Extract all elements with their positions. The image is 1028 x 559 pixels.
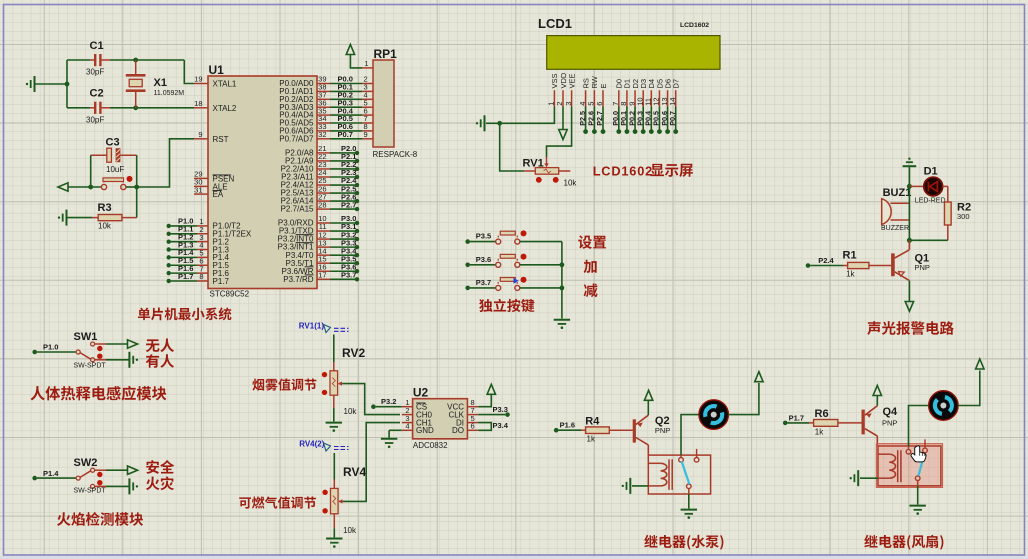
ground RV2: [326, 422, 342, 424]
push button reset: [101, 184, 106, 189]
svg-text:RV1: RV1: [523, 158, 544, 170]
pin 26 stub: [317, 192, 330, 194]
wire net P1.1: [171, 233, 197, 235]
hand cursor: [911, 446, 926, 462]
node P3.6: [355, 269, 359, 273]
node P1.6: [554, 428, 559, 433]
ground above alarm: [903, 165, 917, 167]
svg-text:P1.7: P1.7: [213, 277, 230, 286]
node P2.7: [355, 207, 359, 211]
ground near crystal caps: [34, 76, 36, 92]
RL2 common pin inner: [917, 481, 919, 486]
wire down to XTAL1 pin: [184, 60, 194, 84]
button action dot P3.5: [521, 230, 527, 236]
svg-text:ADC0832: ADC0832: [413, 441, 448, 450]
wire Q4 emitter to power: [876, 396, 878, 406]
node P3.2: [355, 237, 359, 241]
svg-text:U1: U1: [209, 63, 225, 77]
resistor R4: [581, 429, 586, 431]
LCD pin 14 stub: [675, 90, 677, 106]
wire RV2 top: [333, 335, 335, 363]
wire VDD down: [562, 107, 564, 131]
wire P1.6 to R4: [558, 429, 581, 431]
resistor R6: [809, 422, 814, 424]
power symbol down at Q1: [905, 302, 913, 312]
pin 3 stub: [197, 241, 208, 243]
node P1.0: [167, 224, 171, 228]
RV1 wiper arrow: [546, 157, 548, 165]
caption 减: [584, 284, 598, 298]
node P0.4 at LCD: [649, 129, 654, 134]
pin 37 stub: [317, 98, 330, 100]
RL1 contact pin inner: [680, 455, 682, 457]
svg-text:28: 28: [318, 200, 326, 209]
svg-text:1k: 1k: [846, 270, 855, 279]
RP1 pin 6 stub: [362, 114, 373, 116]
wire RV4 top: [333, 453, 335, 480]
caption 安全: [146, 460, 159, 474]
wire net P3.3: [330, 246, 356, 248]
pin 12 stub: [317, 238, 330, 240]
terminal triangle RV4: [324, 443, 331, 451]
caption 火灾: [146, 477, 160, 491]
wire net P3.0: [330, 222, 356, 224]
node P0.2 at LCD: [633, 129, 638, 134]
RP1 pin 2 stub: [362, 83, 373, 85]
pin 15 stub: [317, 262, 330, 264]
wire VSS to ground: [502, 107, 554, 124]
wire P2.4 to R1: [810, 265, 843, 267]
SW1 action dot down: [97, 354, 102, 359]
svg-text:3: 3: [564, 102, 573, 106]
power symbol down at VDD: [559, 130, 567, 140]
LCD pin 6 stub: [602, 90, 604, 106]
node P1.4: [167, 255, 171, 259]
wire LCD net P2.5: [585, 107, 587, 131]
svg-text:10uF: 10uF: [106, 165, 124, 174]
wire button P3.5 to rail: [520, 241, 562, 243]
LCD pin 7 stub: [618, 90, 620, 106]
RV4 adjust dot up: [322, 490, 327, 495]
wire ground net to RV1 left: [500, 123, 524, 171]
wire button P3.7 to rail: [520, 287, 562, 289]
node P1.1: [167, 232, 171, 236]
svg-text:U2: U2: [413, 386, 429, 400]
svg-text:X1: X1: [154, 77, 167, 89]
wire vertical C1 to C2: [66, 60, 68, 108]
wire net P1.3: [171, 249, 197, 251]
ground at R3: [66, 210, 68, 226]
svg-text:6: 6: [471, 422, 475, 431]
wire RL1 common to ground: [688, 494, 690, 509]
push button P3.7: [496, 285, 501, 290]
pin 34 stub: [317, 122, 330, 124]
pin 5 stub: [197, 256, 208, 258]
RP1 pin 7 stub: [362, 122, 373, 124]
node P2.5: [355, 191, 359, 195]
node P2.6 at LCD: [592, 129, 597, 134]
svg-text:C2: C2: [90, 88, 104, 100]
svg-text:P3.4: P3.4: [493, 421, 509, 430]
power symbol left at reset: [58, 183, 68, 191]
svg-text:P0.7/AD7: P0.7/AD7: [279, 134, 314, 143]
ground of buttons: [554, 319, 570, 321]
capacitor C1: [90, 59, 94, 61]
wire net P2.3: [330, 176, 356, 178]
svg-text:P3.3: P3.3: [493, 405, 508, 414]
svg-text:P3.7: P3.7: [341, 270, 356, 279]
node P1.2: [167, 239, 171, 243]
RV2 top lead: [333, 362, 335, 371]
svg-text:SW-SPDT: SW-SPDT: [74, 488, 107, 495]
svg-text:RV1(1): RV1(1): [299, 322, 325, 331]
svg-text:RV4: RV4: [343, 465, 366, 479]
R2 bottom lead: [947, 225, 949, 240]
relay RL2 common contact: [915, 476, 920, 481]
wire SW1 top to power: [106, 343, 128, 345]
svg-text:BUZZER: BUZZER: [881, 225, 909, 232]
wire C3 left down: [90, 155, 92, 187]
wire SW2 bottom to ground: [106, 485, 129, 487]
blue dashes RV2: [334, 328, 349, 331]
wire LCD net P0.6: [667, 107, 669, 131]
wire junction to ground: [486, 122, 500, 124]
caption 设置: [578, 235, 592, 248]
LCD pin 10 stub: [642, 90, 644, 106]
push button P3.6: [496, 262, 501, 267]
U2 pin 7 stub: [467, 414, 478, 416]
RV2 adjust dot down: [322, 390, 327, 395]
node P0.0 at LCD: [616, 129, 621, 134]
svg-text:17: 17: [318, 270, 326, 279]
node P1.5: [167, 263, 171, 267]
caption 火焰检测模块: [57, 512, 71, 526]
pin 7 stub: [197, 272, 208, 274]
svg-text:R3: R3: [98, 202, 112, 214]
pin 35 stub: [317, 114, 330, 116]
svg-text:BUZ1: BUZ1: [883, 187, 912, 199]
wire P3.7 to button: [470, 287, 496, 289]
relay RL1 box (water pump): [648, 455, 710, 494]
wire P1.4 to SW2: [37, 477, 76, 479]
blue dashes RV4: [334, 447, 349, 450]
pin 38 stub: [317, 90, 330, 92]
wire R2 to alarm bottom node: [909, 239, 947, 241]
svg-text:P3.7/RD: P3.7/RD: [283, 275, 313, 284]
wire RV2 wiper to U2 CH0: [343, 384, 401, 415]
svg-text:Q4: Q4: [883, 406, 899, 418]
node P3.7: [465, 286, 470, 291]
svg-text:P1.0: P1.0: [43, 343, 58, 352]
node P3.0: [355, 221, 359, 225]
ground RL1 common: [681, 509, 697, 511]
pin 36 stub: [317, 106, 330, 108]
RV1 right lead: [559, 170, 571, 172]
wire ground to alarm node: [908, 166, 910, 186]
LCD pin 13 stub: [667, 90, 669, 106]
wire DI DO join P3.4: [478, 423, 491, 431]
svg-text:4: 4: [578, 102, 587, 106]
node P0.5 at LCD: [657, 129, 662, 134]
node P3.1: [355, 229, 359, 233]
RV4 adjust dot down: [322, 508, 327, 513]
node P3.6: [465, 263, 470, 268]
svg-text:VEE: VEE: [567, 73, 576, 88]
pin 6 stub: [197, 264, 208, 266]
wire net P1.6: [171, 272, 197, 274]
wire U2 GND left: [389, 429, 402, 431]
svg-text:18: 18: [194, 99, 202, 108]
svg-text:P3.5: P3.5: [476, 232, 491, 241]
wire C3 right down: [136, 155, 138, 187]
svg-text:R1: R1: [843, 250, 857, 262]
svg-text:LCD1602: LCD1602: [593, 164, 653, 179]
pin 24 stub: [317, 176, 330, 178]
svg-text:P2.5: P2.5: [578, 111, 587, 126]
RV4 wiper: [339, 500, 343, 502]
wire C1 to XTAL1 net: [110, 59, 184, 61]
pin 39 stub: [317, 83, 330, 85]
wire net P0.6: [330, 130, 362, 132]
node P3.3: [505, 412, 510, 417]
svg-text:EA: EA: [213, 190, 224, 199]
wire junction down to R3: [136, 187, 138, 218]
motor M1 water pump: [699, 400, 729, 430]
wire P3.5 to button: [470, 241, 496, 243]
svg-text:9: 9: [364, 130, 368, 139]
wire net P2.7: [330, 208, 356, 210]
wire U2 GND down: [388, 430, 390, 438]
svg-text:30pF: 30pF: [86, 68, 104, 77]
wire VCC to power: [478, 394, 491, 407]
svg-text:DO: DO: [452, 426, 464, 435]
wire net P0.3: [330, 106, 362, 108]
LED D1: [924, 177, 943, 196]
relay RL2 coil: [878, 453, 889, 455]
caption 继电器(水泵): [644, 535, 657, 548]
wire RV4 to ground: [333, 528, 335, 537]
caption 烟雾值调节: [252, 379, 264, 391]
svg-text:GND: GND: [416, 426, 434, 435]
svg-text:STC89C52: STC89C52: [210, 290, 250, 299]
resistor R2: [944, 202, 951, 225]
svg-text:RST: RST: [213, 135, 229, 144]
svg-text:300: 300: [957, 212, 970, 221]
svg-text:1k: 1k: [587, 435, 596, 444]
node reset junction: [134, 185, 139, 190]
push button P3.5: [496, 239, 501, 244]
RV4 top lead: [333, 480, 335, 489]
pot RV1 left lead: [524, 170, 535, 172]
U2 pin 6 stub: [467, 429, 478, 431]
wire net P2.1: [330, 160, 356, 162]
node P1.7: [783, 421, 788, 426]
pin 9 stub: [194, 138, 208, 140]
D1 right lead: [943, 185, 948, 187]
node P3.5: [465, 239, 470, 244]
pin 25 stub: [317, 184, 330, 186]
wire C2 to XTAL2 pin: [110, 107, 194, 109]
U2 pin 8 stub: [467, 406, 478, 408]
pin 14 stub: [317, 254, 330, 256]
RV1 adjust dot left: [536, 177, 542, 183]
pin 30 stub: [194, 185, 208, 187]
wire RL2 common to ground: [917, 486, 919, 505]
caption 无人: [146, 339, 160, 352]
node P2.2: [355, 167, 359, 171]
wire LCD net P0.2: [634, 107, 636, 131]
node C3 left junction: [88, 185, 93, 190]
wire net P2.2: [330, 168, 356, 170]
wire net P3.6: [330, 270, 356, 272]
relay RL2 box (fan): [878, 446, 941, 486]
SW1 top throw lead: [95, 343, 106, 345]
pin 8 stub: [197, 280, 208, 282]
wire net P0.0: [330, 83, 362, 85]
node P3.7: [355, 277, 359, 281]
caption 声光报警电路: [867, 321, 880, 335]
power symbol at Q4: [873, 386, 881, 396]
resistor R3: [92, 217, 98, 219]
node VSS ground junction: [497, 121, 502, 126]
node P0.1 at LCD: [625, 129, 630, 134]
button action dot P3.6: [521, 254, 527, 260]
U2 pin 5 stub: [467, 422, 478, 424]
svg-text:32: 32: [318, 130, 326, 139]
LCD pin 5 stub: [593, 90, 595, 106]
wire net P2.4: [330, 184, 356, 186]
SW1 action dot up: [97, 346, 102, 351]
svg-text:1: 1: [364, 59, 368, 68]
svg-text:R6: R6: [815, 408, 829, 420]
wire to C2 left: [67, 107, 90, 109]
RV2 adjust dot up: [322, 372, 327, 377]
svg-text:LCD1: LCD1: [538, 16, 572, 31]
svg-text:10k: 10k: [344, 407, 358, 416]
node P2.0: [355, 151, 359, 155]
ground RV4: [326, 538, 342, 540]
svg-text:30pF: 30pF: [86, 116, 104, 125]
LCD pin 9 stub: [634, 90, 636, 106]
motor M2 fan: [929, 391, 959, 421]
wire net P0.5: [330, 122, 362, 124]
svg-text:R4: R4: [585, 415, 600, 427]
svg-text:PNP: PNP: [655, 426, 670, 435]
relay RL1 coil: [648, 462, 660, 464]
pin 1 stub: [197, 225, 208, 227]
wire alarm vertical: [908, 186, 910, 240]
svg-text:19: 19: [194, 75, 202, 84]
U2 pin 1 stub: [402, 406, 413, 408]
wire net P3.4: [330, 254, 356, 256]
power symbol at motor2: [976, 359, 984, 369]
wire RL2 contact to motor2: [909, 406, 929, 447]
node P2.7 at LCD: [601, 129, 606, 134]
wire P1.7 to R6: [787, 422, 809, 424]
RP1 pin 8 stub: [362, 130, 373, 132]
buzzer BUZ1: [882, 199, 892, 225]
wire net P0.7: [330, 138, 362, 140]
relay RL1 contact NO: [679, 458, 684, 463]
wire LCD net P0.7: [675, 107, 677, 131]
svg-text:6: 6: [595, 102, 604, 106]
svg-text:P1.4: P1.4: [43, 469, 59, 478]
node P0.6 at LCD: [665, 129, 670, 134]
pin 27 stub: [317, 200, 330, 202]
RP1 pin 4 stub: [362, 98, 373, 100]
relay RL1 lever: [682, 461, 690, 484]
svg-text:RS: RS: [581, 78, 590, 88]
wire LCD net P0.1: [626, 107, 628, 131]
relay RL2 lever: [918, 458, 923, 476]
resistor R1: [843, 265, 848, 267]
LCD pin 11 stub: [650, 90, 652, 106]
node P1.4: [32, 476, 37, 481]
wire LCD net P0.3: [642, 107, 644, 131]
wire LCD net P2.6: [593, 107, 595, 131]
svg-text:P2.7: P2.7: [341, 200, 356, 209]
svg-text:D1: D1: [924, 166, 938, 178]
node P2.1: [355, 159, 359, 163]
pin 31 stub: [194, 193, 208, 195]
wire net P1.7: [171, 280, 197, 282]
wire P3.2 to CS: [376, 406, 402, 408]
pin 4 stub: [197, 249, 208, 251]
wire ground to RL2 coil: [860, 477, 878, 479]
svg-text:1k: 1k: [815, 427, 824, 436]
junction rail P3.6: [560, 262, 565, 267]
SW2 top throw lead: [95, 469, 106, 471]
switch SW1 SW-SPDT: [76, 350, 80, 354]
svg-text:LCD1602: LCD1602: [680, 22, 709, 29]
power symbol at U2 VCC: [487, 384, 495, 394]
U2 pin 3 stub: [402, 422, 413, 424]
wire Q2 emitter to power: [647, 400, 649, 415]
wire net P1.5: [171, 264, 197, 266]
svg-text:P1.6: P1.6: [560, 421, 575, 430]
power symbol at motor1: [755, 372, 763, 382]
ground at LCD VSS: [484, 115, 486, 131]
svg-text:P2.4: P2.4: [818, 256, 834, 265]
wire VEE to RV1 wiper: [547, 107, 572, 158]
relay RL2 contact NO: [906, 449, 911, 454]
wire LCD net P0.5: [658, 107, 660, 131]
node P2.5 at LCD: [583, 129, 588, 134]
LCD pin 1 stub: [553, 90, 555, 106]
node P2.4: [806, 263, 811, 268]
svg-text:P3.6: P3.6: [476, 255, 491, 264]
power symbol right SW2: [128, 466, 138, 474]
SW2 action dot down: [97, 480, 102, 485]
terminal triangle RV2: [324, 325, 331, 333]
ground RL2 common: [910, 505, 926, 507]
ground at RL1 coil: [629, 478, 631, 494]
svg-text:11.0592M: 11.0592M: [154, 90, 185, 97]
svg-text:10k: 10k: [343, 526, 357, 535]
svg-text:10k: 10k: [98, 222, 112, 231]
node P1.3: [167, 247, 171, 251]
caption 可燃气值调节: [239, 497, 251, 508]
pin 33 stub: [317, 130, 330, 132]
node P3.2: [371, 404, 376, 409]
caption 单片机最小系统: [138, 308, 150, 321]
wire reset net to RST pin: [137, 139, 194, 187]
capacitor C2: [90, 107, 94, 109]
svg-text:8: 8: [199, 272, 203, 281]
RV1 adjust dot right: [553, 177, 559, 183]
svg-text:E: E: [599, 83, 608, 88]
svg-text:RP1: RP1: [374, 47, 398, 61]
